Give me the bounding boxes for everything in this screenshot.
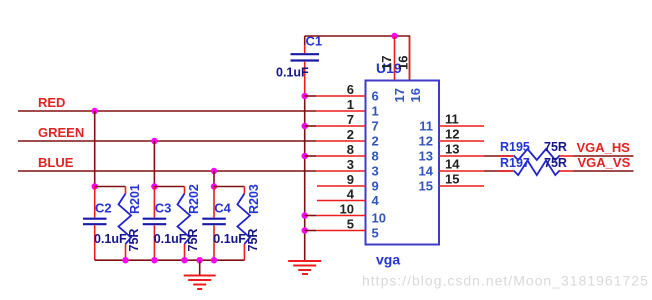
svg-text:16: 16 [396, 56, 411, 70]
svg-text:11: 11 [419, 119, 433, 134]
junction C3 top node [151, 183, 157, 189]
pin 4 stub (n.c.) [317, 200, 366, 202]
wire GREEN drop to C3/R202 top node [153, 141, 155, 187]
svg-text:BLUE: BLUE [38, 155, 74, 170]
capacitor C2 [83, 187, 127, 261]
ground symbol under bus [288, 261, 321, 274]
svg-text:8: 8 [372, 149, 379, 164]
capacitor C1 [276, 34, 322, 97]
resistor R202 [178, 184, 202, 260]
wire pin 16 drop [409, 37, 411, 81]
svg-text:VGA_VS: VGA_VS [578, 155, 631, 170]
wire C2-R201 top rail [95, 186, 126, 188]
junction BLUE / C4 network [211, 168, 217, 174]
wire bottom rail of RC networks [95, 259, 245, 261]
wire RED drop to C2/R201 top node [94, 111, 96, 187]
svg-text:R203: R203 [247, 184, 261, 214]
wire GREEN net horizontal [18, 140, 316, 142]
wire pin 17 drop [394, 36, 396, 81]
junction C3 bottom [151, 257, 157, 263]
svg-text:0.1uF: 0.1uF [276, 66, 309, 80]
pin 14 stub [439, 170, 484, 172]
junction pin7 [302, 123, 308, 129]
svg-text:VGA_HS: VGA_HS [577, 140, 631, 155]
svg-text:9: 9 [347, 172, 354, 187]
svg-text:2: 2 [347, 127, 354, 142]
svg-text:75R: 75R [544, 140, 567, 154]
pin 11 stub [439, 125, 484, 127]
junction pin6/C1 [302, 93, 308, 99]
wire RED net horizontal [18, 110, 316, 112]
svg-text:C2: C2 [95, 201, 112, 216]
svg-text:0.1uF: 0.1uF [154, 232, 187, 246]
wire C3-R202 top rail [154, 186, 184, 188]
svg-text:14: 14 [419, 164, 434, 179]
svg-text:8: 8 [347, 142, 354, 157]
resistor R201 [119, 184, 143, 260]
svg-text:0.1uF: 0.1uF [94, 232, 127, 246]
svg-text:4: 4 [372, 193, 380, 208]
svg-text:C3: C3 [155, 201, 172, 216]
pin 13 stub [439, 155, 484, 157]
svg-text:2: 2 [372, 134, 379, 149]
svg-text:R197: R197 [500, 156, 530, 170]
junction pin17 wire [391, 33, 397, 39]
wire pin13 to R195 [484, 155, 513, 157]
svg-text:R202: R202 [187, 184, 201, 214]
wire ground bus vertical [304, 96, 306, 261]
wire BLUE drop to C4/R203 top node [213, 171, 215, 187]
junction pin10 [302, 212, 308, 218]
svg-text:4: 4 [347, 187, 355, 202]
pin 5 stub [305, 230, 317, 232]
svg-text:17: 17 [379, 56, 394, 70]
resistor R197 [498, 156, 573, 175]
svg-text:6: 6 [347, 82, 354, 97]
wire R197 to VGA_VS [573, 170, 634, 172]
svg-text:15: 15 [419, 179, 433, 194]
junction C4 top node [211, 183, 217, 189]
svg-text:7: 7 [372, 119, 379, 134]
junction C2 top node [92, 183, 98, 189]
svg-text:13: 13 [445, 142, 459, 157]
svg-text:vga: vga [376, 252, 400, 268]
svg-text:15: 15 [445, 172, 459, 187]
wire C4-R203 top rail [214, 186, 244, 188]
pin 10 stub [305, 215, 317, 217]
pin 15 stub [439, 185, 484, 187]
svg-text:75R: 75R [246, 229, 260, 252]
wire pin14 to R197 [484, 170, 513, 172]
svg-text:75R: 75R [127, 229, 141, 252]
connector U19 body (vga) [366, 81, 440, 245]
svg-text:13: 13 [419, 149, 433, 164]
svg-text:0.1uF: 0.1uF [213, 232, 246, 246]
junction RED / C2 network [92, 108, 98, 114]
wire BLUE net horizontal [18, 170, 316, 172]
svg-text:3: 3 [347, 157, 354, 172]
svg-text:6: 6 [372, 89, 379, 104]
svg-text:17: 17 [392, 88, 407, 102]
wire R195 to VGA_HS [573, 155, 634, 157]
resistor R203 [237, 184, 261, 260]
junction C4 bottom [211, 257, 217, 263]
svg-text:R195: R195 [500, 140, 530, 154]
junction ground tap [197, 257, 203, 263]
svg-text:https://blog.csdn.net/Moon_318: https://blog.csdn.net/Moon_3181961725 [362, 273, 649, 289]
pin 6 stub [305, 95, 317, 97]
svg-text:10: 10 [340, 202, 354, 217]
pin 8 stub [305, 155, 317, 157]
capacitor C3 [143, 187, 187, 261]
junction R201 bottom [122, 257, 128, 263]
svg-text:12: 12 [419, 134, 433, 149]
wire C1 top to pins 17/16 [305, 36, 410, 81]
svg-text:5: 5 [372, 226, 379, 241]
svg-text:5: 5 [347, 217, 354, 232]
svg-text:12: 12 [445, 127, 459, 142]
svg-text:9: 9 [372, 179, 379, 194]
junction pin8 [302, 153, 308, 159]
resistor R195 [498, 140, 573, 160]
svg-text:GREEN: GREEN [38, 125, 84, 140]
svg-text:75R: 75R [186, 229, 200, 252]
svg-text:11: 11 [445, 112, 459, 127]
pin 9 stub (n.c.) [317, 185, 366, 187]
junction GREEN / C3 network [151, 138, 157, 144]
svg-text:3: 3 [372, 164, 379, 179]
ground symbol under RC networks [184, 260, 216, 289]
svg-text:C4: C4 [214, 201, 231, 216]
svg-text:RED: RED [38, 95, 65, 110]
svg-text:1: 1 [347, 97, 354, 112]
svg-text:1: 1 [372, 104, 379, 119]
junction R202 bottom [181, 257, 187, 263]
svg-text:10: 10 [372, 211, 386, 226]
capacitor C4 [202, 187, 246, 261]
pin 7 stub [305, 125, 317, 127]
svg-text:75R: 75R [544, 156, 567, 170]
junction pin5 [302, 227, 308, 233]
svg-text:14: 14 [445, 157, 460, 172]
pin 12 stub [439, 140, 484, 142]
svg-text:7: 7 [347, 112, 354, 127]
svg-text:16: 16 [408, 88, 423, 102]
svg-text:R201: R201 [128, 184, 142, 214]
